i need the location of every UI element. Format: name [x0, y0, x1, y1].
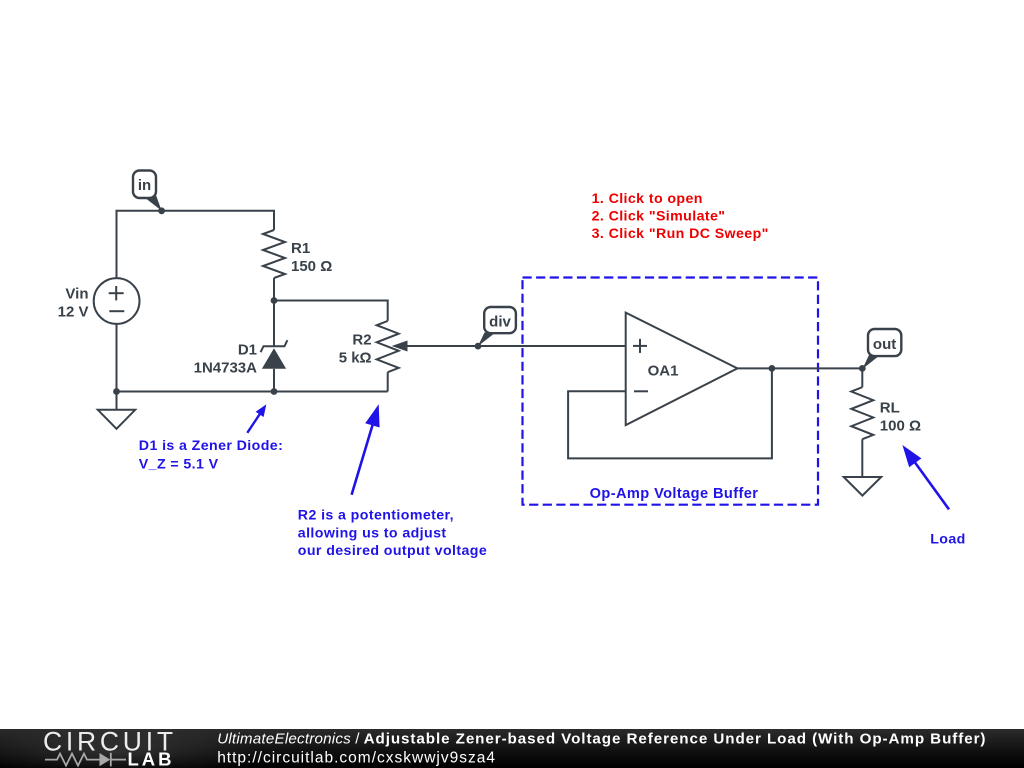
svg-text:R1: R1 — [291, 240, 310, 257]
wire top from Vin to R1 — [117, 211, 275, 278]
wire feedback loop — [568, 368, 772, 458]
node junction dot feedback/output — [769, 365, 776, 372]
zener diode D1 — [273, 301, 275, 347]
node junction dot bottom-left — [113, 388, 120, 395]
svg-text:5 kΩ: 5 kΩ — [339, 349, 372, 366]
svg-text:100 Ω: 100 Ω — [880, 418, 921, 435]
svg-text:LAB: LAB — [128, 748, 175, 768]
svg-text:div: div — [489, 314, 511, 331]
svg-text:D1: D1 — [238, 342, 257, 359]
resistor R1 — [263, 230, 285, 278]
svg-text:3. Click "Run DC Sweep": 3. Click "Run DC Sweep" — [592, 226, 769, 242]
svg-text:OA1: OA1 — [648, 363, 679, 380]
annotation arrow to RL load — [914, 461, 949, 509]
op-amp OA1 — [626, 313, 738, 426]
node junction dot D1 bottom — [271, 388, 278, 395]
svg-text:D1 is a Zener Diode:: D1 is a Zener Diode: — [139, 438, 283, 454]
svg-text:our desired output voltage: our desired output voltage — [298, 543, 487, 559]
ground under Vin — [116, 392, 118, 410]
svg-text:in: in — [138, 177, 151, 194]
wire op-amp output — [737, 367, 862, 369]
svg-text:R2: R2 — [352, 331, 371, 348]
svg-text:12 V: 12 V — [58, 303, 89, 320]
svg-text:UltimateElectronics / Adjustab: UltimateElectronics / Adjustable Zener-b… — [217, 731, 986, 748]
svg-text:R2 is a potentiometer,: R2 is a potentiometer, — [298, 507, 454, 523]
svg-text:Load: Load — [930, 532, 966, 548]
node junction dot R1 bottom — [271, 297, 278, 304]
resistor RL — [861, 368, 863, 387]
svg-text:V_Z = 5.1 V: V_Z = 5.1 V — [139, 457, 219, 473]
potentiometer R2 — [377, 321, 399, 372]
svg-text:http://circuitlab.com/cxskwwjv: http://circuitlab.com/cxskwwjv9sza4 — [217, 749, 496, 766]
node div bubble — [478, 331, 498, 346]
svg-text:1N4733A: 1N4733A — [194, 360, 258, 377]
logo resistor-diode squiggle — [45, 753, 126, 767]
svg-text:Vin: Vin — [65, 285, 88, 302]
svg-text:RL: RL — [880, 400, 900, 417]
svg-text:Op-Amp Voltage Buffer: Op-Amp Voltage Buffer — [590, 486, 759, 502]
svg-text:1. Click to open: 1. Click to open — [592, 191, 703, 207]
node in bubble — [143, 195, 161, 211]
svg-text:2. Click "Simulate": 2. Click "Simulate" — [592, 209, 726, 225]
R2 wiper arrow — [392, 341, 408, 352]
wire bottom rail — [117, 391, 388, 393]
svg-text:150 Ω: 150 Ω — [291, 258, 332, 275]
node out bubble — [862, 354, 882, 370]
wire R1 bottom to R2 top — [274, 301, 388, 321]
voltage source Vin — [94, 278, 140, 324]
annotation arrow to D1 — [247, 413, 260, 433]
wire Vin bottom to ground rail — [116, 324, 118, 392]
ground under RL — [844, 477, 882, 496]
svg-text:out: out — [873, 336, 896, 353]
dashed box Op-Amp Voltage Buffer — [523, 278, 819, 505]
svg-text:allowing us to adjust: allowing us to adjust — [298, 525, 447, 541]
annotation arrow to R2 — [352, 424, 373, 495]
